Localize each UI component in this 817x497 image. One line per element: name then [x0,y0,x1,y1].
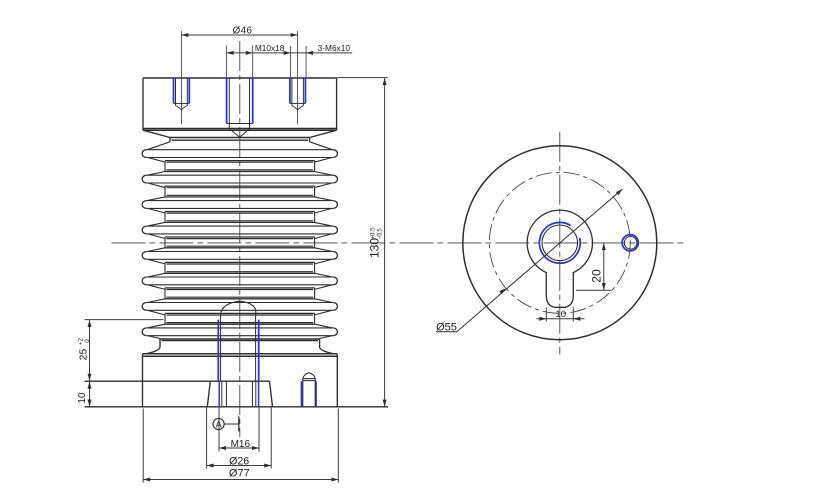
svg-text:+0.5: +0.5 [370,227,377,240]
svg-text:130: 130 [368,238,382,258]
svg-text:M10x18: M10x18 [255,43,285,53]
svg-text:25: 25 [78,349,90,361]
svg-text:10: 10 [77,392,88,404]
svg-text:-0.5: -0.5 [377,228,384,239]
svg-text:0: 0 [84,339,91,343]
svg-text:10: 10 [556,309,567,320]
svg-text:A: A [216,419,222,429]
svg-text:M16: M16 [231,439,251,450]
svg-text:Ø77: Ø77 [229,468,250,480]
svg-text:3-M6x10: 3-M6x10 [318,43,351,53]
svg-text:20: 20 [589,269,603,283]
svg-text:Ø26: Ø26 [229,456,249,468]
svg-text:Ø46: Ø46 [233,26,253,37]
